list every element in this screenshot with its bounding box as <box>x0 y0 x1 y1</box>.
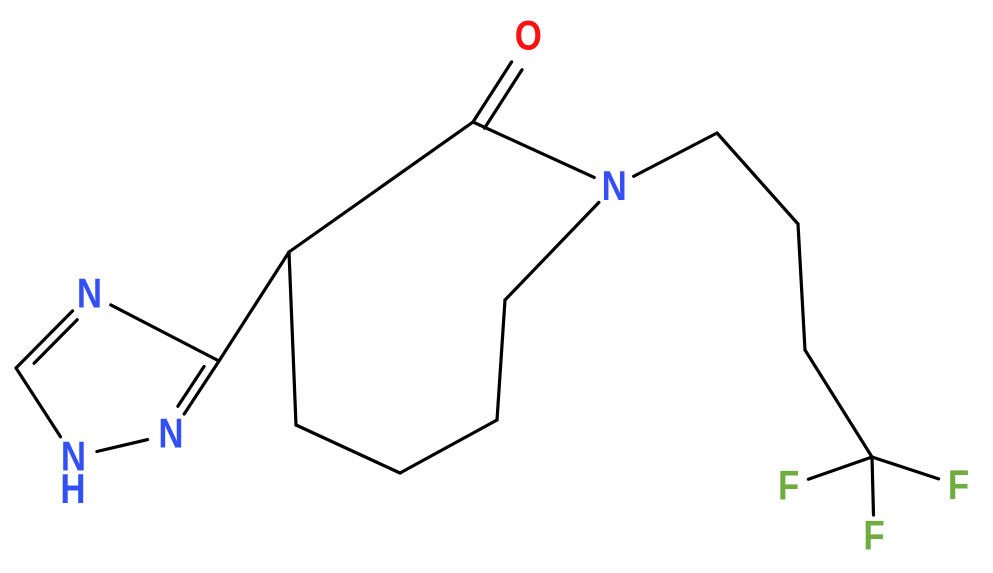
C-F bond to F east <box>872 457 939 479</box>
svg-text:N: N <box>602 163 627 210</box>
triazole bond N1-N2 <box>97 440 148 452</box>
C-F bond to F west <box>808 457 872 479</box>
azepanone ring bond C4-C3 <box>497 300 505 420</box>
triazole double bond N2=C3 <box>184 361 219 414</box>
chain bond CH2b-CH2c <box>798 224 805 350</box>
carbonyl double bond C2=O inner line <box>485 70 523 128</box>
triazole double bond N2=C3 inner line <box>178 366 204 406</box>
azepanone ring bond C5-C4 <box>400 420 497 473</box>
svg-text:F: F <box>863 513 884 560</box>
amide bond C2-N1 <box>473 122 594 177</box>
svg-text:O: O <box>515 13 542 60</box>
triazole bond C3-N4 <box>111 305 219 361</box>
svg-text:F: F <box>778 463 799 510</box>
carbonyl double bond C2=O <box>473 62 512 122</box>
svg-text:F: F <box>948 462 969 509</box>
chain bond N1-CH2a <box>634 133 717 176</box>
chain bond CH2a-CH2b <box>717 133 798 224</box>
azepanone ring bond C6-C5 <box>296 425 400 473</box>
chain bond CH2c-CF3 <box>805 350 872 457</box>
svg-text:N: N <box>77 271 102 318</box>
C-F bond to F south <box>872 457 874 515</box>
triazole double bond N4=C5 inner line <box>34 320 77 364</box>
svg-text:N: N <box>158 411 183 458</box>
azepanone ring bond C7-C6 <box>289 252 296 425</box>
svg-text:H: H <box>60 466 85 513</box>
bond C3-C7 (triazole to ring CH) <box>219 252 289 361</box>
azepanone ring bond C7-C2 (long) <box>289 122 473 252</box>
triazole bond C5-N1 <box>16 368 61 437</box>
azepanone ring bond C3-N1 <box>505 202 599 300</box>
triazole double bond N4=C5 <box>16 311 73 368</box>
